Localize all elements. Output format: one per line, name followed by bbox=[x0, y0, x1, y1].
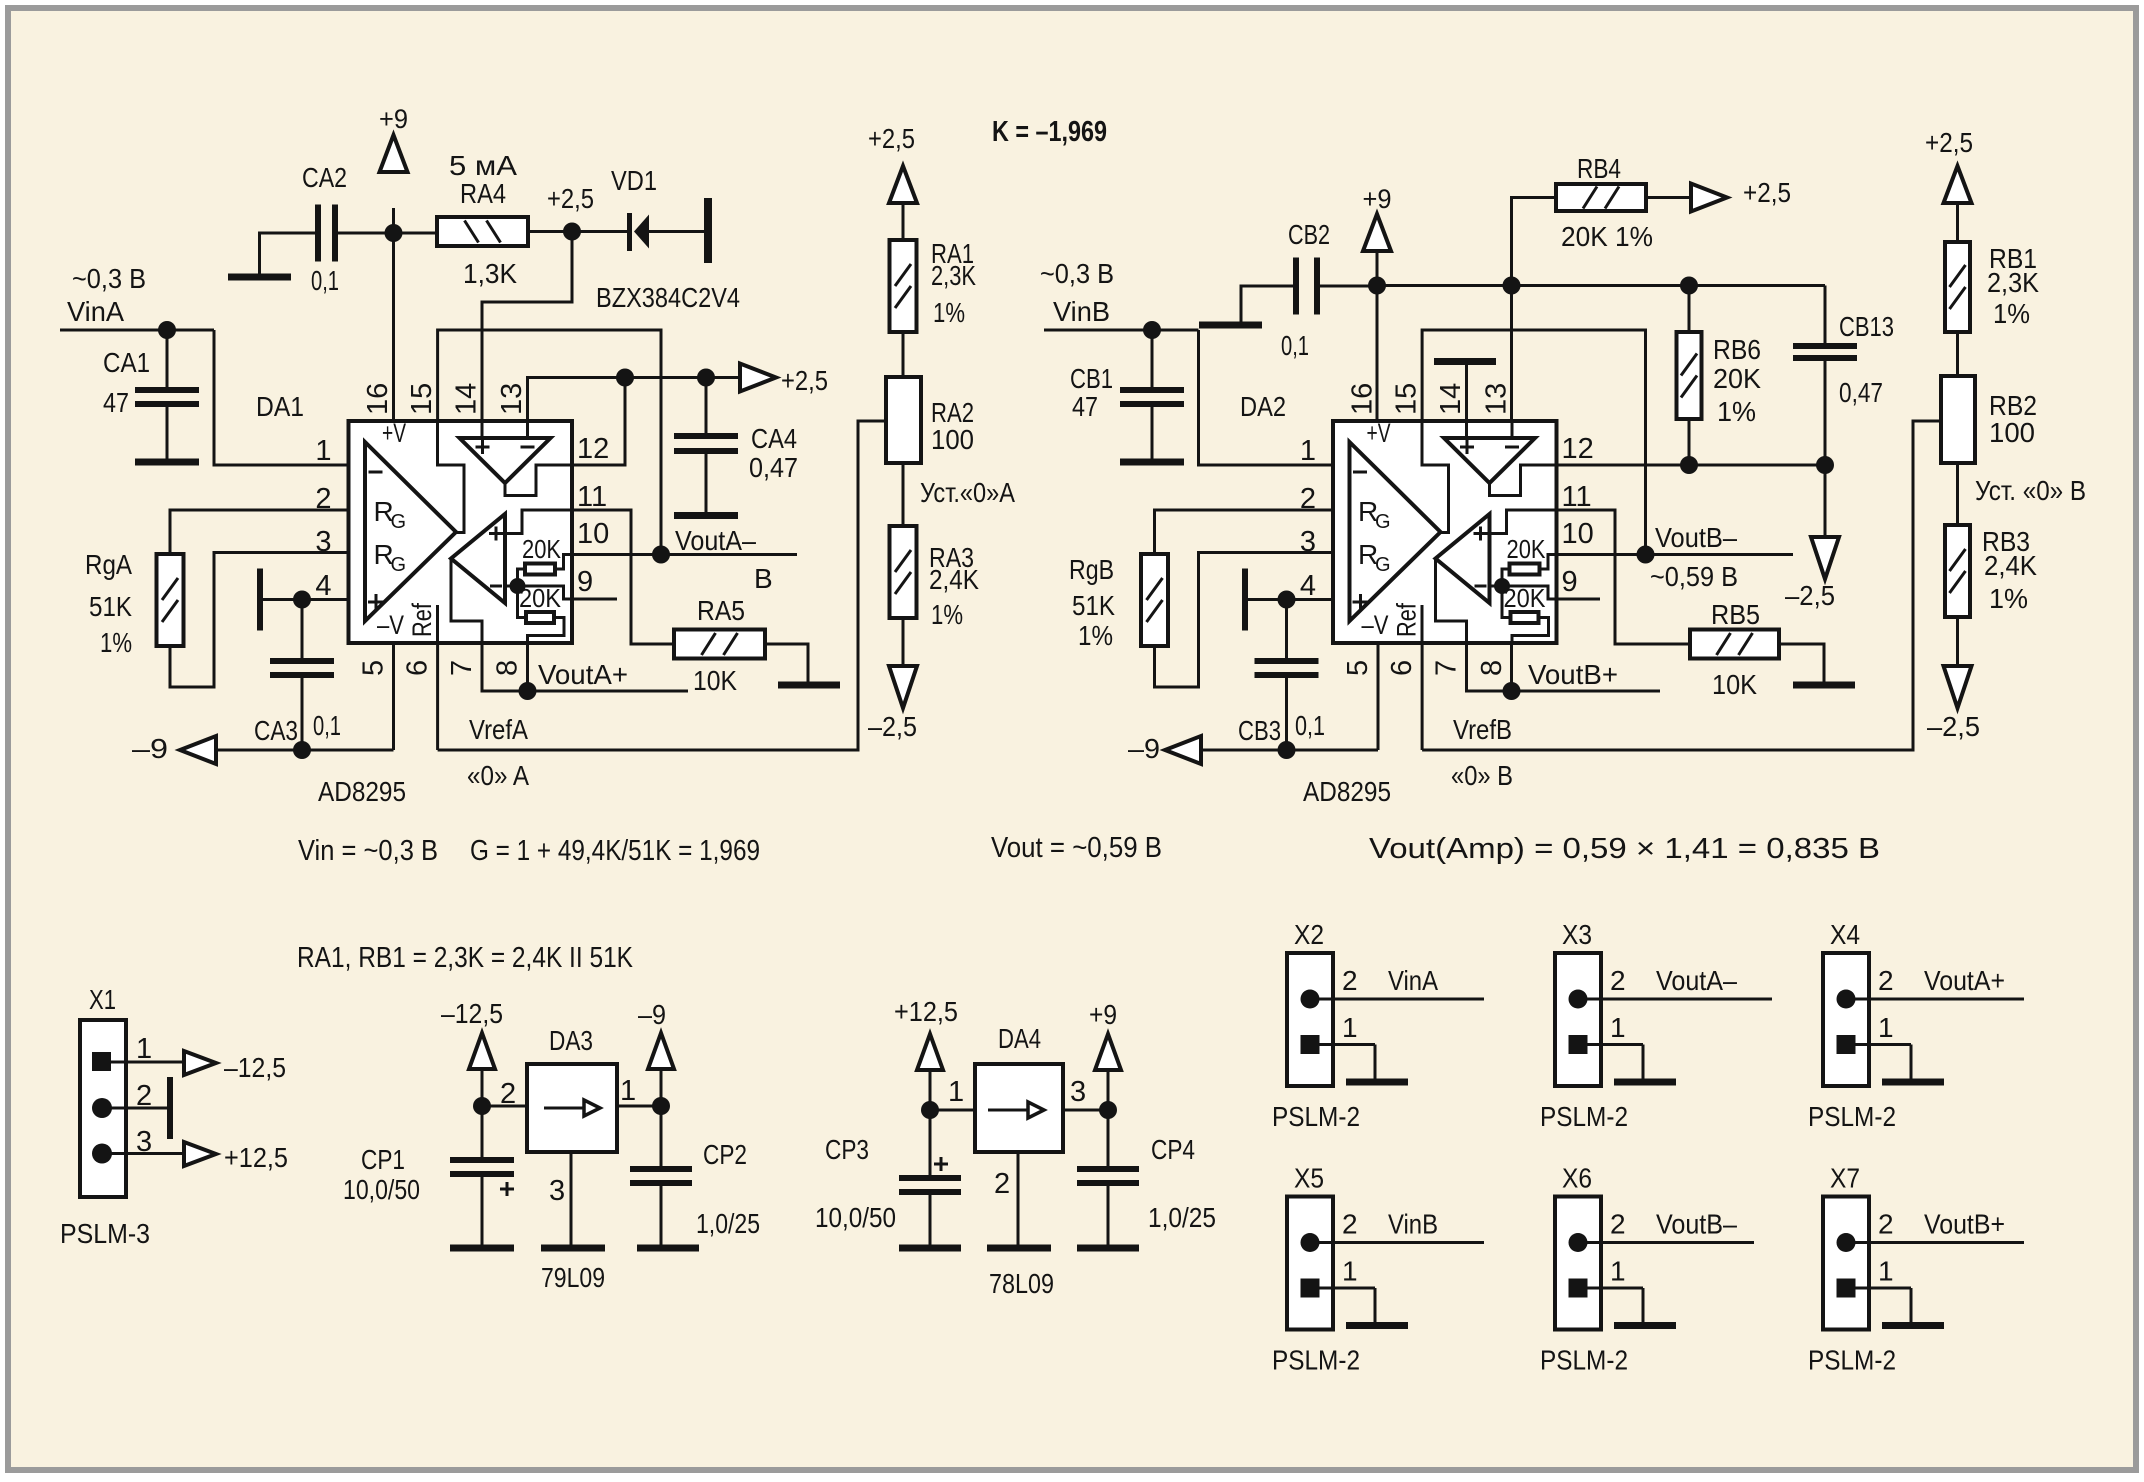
svg-text:G = 1 + 49,4K/51K = 1,969: G = 1 + 49,4K/51K = 1,969 bbox=[470, 835, 760, 867]
svg-text:14: 14 bbox=[451, 383, 483, 415]
svg-text:1: 1 bbox=[1610, 1012, 1626, 1043]
svg-text:+2,5: +2,5 bbox=[868, 123, 915, 154]
svg-text:CP4: CP4 bbox=[1151, 1134, 1195, 1165]
svg-text:CP1: CP1 bbox=[361, 1144, 405, 1175]
svg-text:RA4: RA4 bbox=[460, 178, 506, 209]
svg-text:CA4: CA4 bbox=[751, 423, 797, 454]
svg-text:Уст.«0»А: Уст.«0»А bbox=[920, 477, 1015, 508]
svg-text:6: 6 bbox=[402, 660, 434, 676]
svg-text:4: 4 bbox=[315, 570, 331, 602]
svg-text:+9: +9 bbox=[1089, 999, 1117, 1030]
svg-text:RgB: RgB bbox=[1069, 554, 1114, 585]
svg-text:CA1: CA1 bbox=[103, 347, 150, 378]
svg-text:5: 5 bbox=[1342, 660, 1374, 676]
svg-text:X3: X3 bbox=[1562, 919, 1592, 950]
svg-text:Vout(Amp) = 0,59 × 1,41 = 0,83: Vout(Amp) = 0,59 × 1,41 = 0,835 В bbox=[1369, 833, 1880, 865]
svg-text:VoutB+: VoutB+ bbox=[1924, 1209, 2005, 1240]
svg-text:DA3: DA3 bbox=[549, 1025, 593, 1056]
svg-text:RgA: RgA bbox=[85, 549, 132, 580]
svg-text:VrefA: VrefA bbox=[469, 714, 528, 745]
svg-text:10: 10 bbox=[1562, 518, 1594, 550]
svg-text:VD1: VD1 bbox=[611, 165, 657, 196]
svg-text:2: 2 bbox=[136, 1080, 152, 1112]
svg-text:CA3: CA3 bbox=[254, 715, 298, 746]
svg-text:2,4K: 2,4K bbox=[1984, 550, 2037, 581]
svg-text:DA1: DA1 bbox=[256, 391, 304, 422]
svg-text:PSLM-2: PSLM-2 bbox=[1272, 1345, 1360, 1376]
svg-text:PSLM-2: PSLM-2 bbox=[1272, 1101, 1360, 1132]
svg-text:G: G bbox=[391, 511, 407, 533]
svg-text:78L09: 78L09 bbox=[989, 1268, 1054, 1299]
svg-text:5: 5 bbox=[358, 660, 390, 676]
svg-text:–V: –V bbox=[377, 610, 404, 640]
svg-text:1: 1 bbox=[1300, 435, 1316, 467]
svg-text:100: 100 bbox=[1989, 417, 2035, 448]
svg-text:VoutB+: VoutB+ bbox=[1528, 659, 1618, 690]
svg-text:–12,5: –12,5 bbox=[224, 1052, 286, 1083]
svg-text:+V: +V bbox=[1367, 418, 1391, 448]
svg-text:CB1: CB1 bbox=[1070, 363, 1113, 394]
svg-text:RA1, RB1 = 2,3K = 2,4K II 51K: RA1, RB1 = 2,3K = 2,4K II 51K bbox=[297, 942, 634, 974]
svg-text:PSLM-2: PSLM-2 bbox=[1540, 1345, 1628, 1376]
svg-text:2: 2 bbox=[994, 1168, 1010, 1200]
svg-text:13: 13 bbox=[496, 383, 528, 415]
svg-text:«0» A: «0» A bbox=[467, 760, 529, 791]
svg-text:–2,5: –2,5 bbox=[1927, 711, 1980, 742]
svg-text:14: 14 bbox=[1435, 383, 1467, 415]
svg-text:~0,3 В: ~0,3 В bbox=[72, 263, 146, 294]
svg-text:~0,3 В: ~0,3 В bbox=[1040, 258, 1114, 289]
svg-text:–9: –9 bbox=[638, 999, 666, 1030]
svg-text:1: 1 bbox=[948, 1076, 964, 1108]
svg-text:9: 9 bbox=[577, 566, 593, 598]
svg-text:VoutA+: VoutA+ bbox=[1924, 965, 2005, 996]
svg-text:7: 7 bbox=[446, 660, 478, 676]
svg-text:RB6: RB6 bbox=[1713, 334, 1761, 365]
svg-text:1%: 1% bbox=[933, 297, 965, 328]
svg-text:1%: 1% bbox=[100, 627, 132, 658]
svg-text:VoutA–: VoutA– bbox=[675, 525, 756, 556]
svg-text:16: 16 bbox=[1347, 383, 1379, 415]
svg-text:Vin = ~0,3 В: Vin = ~0,3 В bbox=[298, 835, 438, 867]
svg-text:+2,5: +2,5 bbox=[781, 365, 828, 396]
svg-text:8: 8 bbox=[492, 660, 524, 676]
svg-text:8: 8 bbox=[1476, 660, 1508, 676]
svg-text:+2,5: +2,5 bbox=[1743, 177, 1791, 208]
svg-text:10,0/50: 10,0/50 bbox=[343, 1174, 420, 1205]
svg-text:CB2: CB2 bbox=[1288, 219, 1330, 250]
svg-text:1%: 1% bbox=[931, 599, 963, 630]
svg-text:2: 2 bbox=[1342, 965, 1358, 996]
svg-text:6: 6 bbox=[1386, 660, 1418, 676]
svg-text:K = –1,969: K = –1,969 bbox=[992, 116, 1107, 148]
svg-text:20K: 20K bbox=[519, 583, 562, 613]
svg-text:X7: X7 bbox=[1830, 1163, 1860, 1194]
svg-text:G: G bbox=[391, 554, 407, 576]
svg-text:+12,5: +12,5 bbox=[224, 1142, 288, 1173]
svg-text:~0,59 В: ~0,59 В bbox=[1650, 561, 1738, 592]
svg-text:PSLM-2: PSLM-2 bbox=[1808, 1101, 1896, 1132]
svg-text:10K: 10K bbox=[1712, 669, 1757, 700]
svg-text:VinA: VinA bbox=[1388, 965, 1438, 996]
svg-text:«0» В: «0» В bbox=[1451, 760, 1513, 791]
svg-text:VoutB–: VoutB– bbox=[1656, 1209, 1737, 1240]
svg-text:Vout = ~0,59 В: Vout = ~0,59 В bbox=[991, 832, 1162, 864]
svg-text:Уст. «0» В: Уст. «0» В bbox=[1975, 475, 2086, 506]
svg-text:1%: 1% bbox=[1993, 298, 2030, 329]
svg-text:10,0/50: 10,0/50 bbox=[815, 1202, 896, 1233]
svg-text:7: 7 bbox=[1431, 660, 1463, 676]
svg-text:CP3: CP3 bbox=[825, 1134, 869, 1165]
svg-text:1: 1 bbox=[136, 1033, 152, 1065]
svg-text:2,4K: 2,4K bbox=[929, 564, 979, 595]
svg-text:1%: 1% bbox=[1078, 620, 1113, 651]
svg-text:VinB: VinB bbox=[1388, 1209, 1438, 1240]
svg-text:CP2: CP2 bbox=[703, 1139, 747, 1170]
svg-text:13: 13 bbox=[1481, 383, 1513, 415]
svg-text:9: 9 bbox=[1562, 566, 1578, 598]
svg-text:–V: –V bbox=[1362, 610, 1389, 640]
svg-text:16: 16 bbox=[362, 383, 394, 415]
svg-text:11: 11 bbox=[577, 481, 607, 513]
svg-text:X1: X1 bbox=[89, 984, 116, 1015]
svg-text:12: 12 bbox=[577, 433, 609, 465]
svg-text:2,3K: 2,3K bbox=[1987, 267, 2039, 298]
svg-text:2: 2 bbox=[1610, 965, 1626, 996]
svg-text:47: 47 bbox=[1072, 391, 1098, 422]
svg-text:0,1: 0,1 bbox=[313, 710, 341, 741]
svg-text:PSLM-3: PSLM-3 bbox=[60, 1218, 150, 1249]
svg-text:CB3: CB3 bbox=[1238, 715, 1281, 746]
svg-text:3: 3 bbox=[136, 1126, 152, 1158]
svg-text:1%: 1% bbox=[1989, 583, 2028, 614]
svg-text:PSLM-2: PSLM-2 bbox=[1808, 1345, 1896, 1376]
svg-text:VoutB–: VoutB– bbox=[1655, 522, 1737, 553]
svg-text:2: 2 bbox=[1610, 1209, 1626, 1240]
svg-text:1: 1 bbox=[1878, 1012, 1894, 1043]
svg-text:+2,5: +2,5 bbox=[1925, 127, 1973, 158]
svg-text:DA4: DA4 bbox=[998, 1023, 1041, 1054]
svg-text:+2,5: +2,5 bbox=[547, 183, 594, 214]
svg-text:–2,5: –2,5 bbox=[1785, 580, 1835, 611]
svg-text:Ref: Ref bbox=[407, 603, 437, 637]
svg-text:RB4: RB4 bbox=[1577, 153, 1621, 184]
svg-text:20K 1%: 20K 1% bbox=[1561, 221, 1653, 252]
svg-text:1,3K: 1,3K bbox=[463, 258, 517, 289]
svg-text:12: 12 bbox=[1562, 433, 1594, 465]
svg-text:G: G bbox=[1375, 554, 1391, 576]
svg-text:–12,5: –12,5 bbox=[441, 998, 503, 1029]
svg-text:VoutA–: VoutA– bbox=[1656, 965, 1737, 996]
svg-text:20K: 20K bbox=[1507, 534, 1547, 564]
svg-text:VoutA+: VoutA+ bbox=[538, 659, 628, 690]
svg-text:10: 10 bbox=[577, 518, 609, 550]
svg-text:15: 15 bbox=[406, 383, 438, 415]
svg-text:79L09: 79L09 bbox=[541, 1262, 605, 1293]
svg-text:X6: X6 bbox=[1562, 1163, 1592, 1194]
svg-text:1%: 1% bbox=[1717, 396, 1756, 427]
svg-text:VinB: VinB bbox=[1053, 296, 1110, 327]
svg-text:AD8295: AD8295 bbox=[318, 776, 406, 807]
svg-text:X2: X2 bbox=[1294, 919, 1324, 950]
svg-text:20K: 20K bbox=[1713, 363, 1761, 394]
svg-text:4: 4 bbox=[1300, 570, 1316, 602]
svg-text:X5: X5 bbox=[1294, 1163, 1324, 1194]
svg-text:PSLM-2: PSLM-2 bbox=[1540, 1101, 1628, 1132]
svg-text:DA2: DA2 bbox=[1240, 391, 1286, 422]
svg-text:1,0/25: 1,0/25 bbox=[696, 1208, 760, 1239]
svg-text:1,0/25: 1,0/25 bbox=[1148, 1202, 1216, 1233]
svg-text:1: 1 bbox=[620, 1075, 636, 1107]
svg-text:–9: –9 bbox=[1128, 733, 1160, 764]
svg-text:B: B bbox=[754, 563, 773, 594]
svg-text:0,1: 0,1 bbox=[311, 265, 339, 296]
svg-text:20K: 20K bbox=[522, 534, 562, 564]
svg-text:5 мА: 5 мА bbox=[449, 150, 517, 181]
svg-text:–2,5: –2,5 bbox=[868, 711, 917, 742]
svg-text:–9: –9 bbox=[132, 733, 168, 764]
svg-text:1: 1 bbox=[315, 435, 331, 467]
svg-text:1: 1 bbox=[1342, 1256, 1358, 1287]
svg-text:CB13: CB13 bbox=[1839, 311, 1894, 342]
svg-text:0,47: 0,47 bbox=[749, 452, 798, 483]
svg-text:+V: +V bbox=[382, 418, 406, 448]
svg-text:+9: +9 bbox=[379, 104, 408, 134]
svg-text:3: 3 bbox=[549, 1175, 565, 1207]
svg-text:11: 11 bbox=[1562, 481, 1592, 513]
svg-text:100: 100 bbox=[931, 424, 974, 455]
svg-text:20K: 20K bbox=[1504, 583, 1547, 613]
svg-text:CA2: CA2 bbox=[302, 162, 347, 193]
svg-text:0,1: 0,1 bbox=[1295, 710, 1325, 741]
svg-text:2,3K: 2,3K bbox=[931, 260, 976, 291]
svg-text:RA5: RA5 bbox=[697, 595, 745, 626]
svg-text:2: 2 bbox=[1342, 1209, 1358, 1240]
svg-text:2: 2 bbox=[500, 1078, 516, 1110]
svg-text:2: 2 bbox=[1878, 965, 1894, 996]
svg-text:G: G bbox=[1375, 511, 1391, 533]
svg-text:VrefB: VrefB bbox=[1453, 714, 1512, 745]
svg-text:0,1: 0,1 bbox=[1281, 330, 1309, 361]
svg-text:X4: X4 bbox=[1830, 919, 1860, 950]
svg-text:1: 1 bbox=[1610, 1256, 1626, 1287]
svg-text:VinA: VinA bbox=[67, 296, 124, 327]
svg-text:1: 1 bbox=[1878, 1256, 1894, 1287]
svg-text:10K: 10K bbox=[693, 665, 737, 696]
svg-text:RB5: RB5 bbox=[1711, 599, 1760, 630]
svg-text:15: 15 bbox=[1391, 383, 1423, 415]
svg-text:3: 3 bbox=[1070, 1076, 1086, 1108]
svg-text:1: 1 bbox=[1342, 1012, 1358, 1043]
svg-text:Ref: Ref bbox=[1392, 603, 1422, 637]
svg-text:51K: 51K bbox=[1072, 590, 1115, 621]
svg-text:AD8295: AD8295 bbox=[1303, 776, 1391, 807]
svg-text:+12,5: +12,5 bbox=[894, 996, 958, 1027]
svg-text:BZX384C2V4: BZX384C2V4 bbox=[596, 282, 740, 313]
svg-text:+9: +9 bbox=[1363, 184, 1392, 214]
svg-text:47: 47 bbox=[103, 387, 129, 418]
svg-text:2: 2 bbox=[1878, 1209, 1894, 1240]
svg-text:51K: 51K bbox=[89, 591, 132, 622]
svg-text:0,47: 0,47 bbox=[1839, 377, 1883, 408]
